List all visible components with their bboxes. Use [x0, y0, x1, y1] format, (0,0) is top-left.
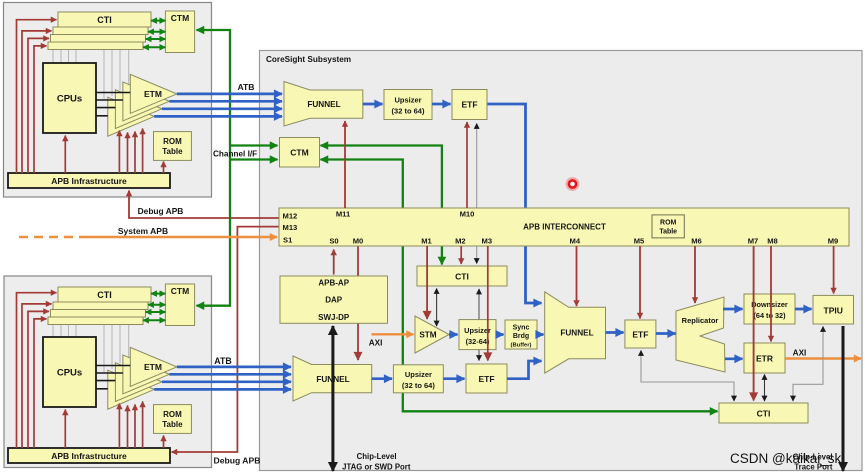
svg-text:Table: Table [659, 228, 677, 235]
wire upsizer to sync bridge (blue) [496, 333, 504, 336]
wire channel branch to subsystem CTM lower (green) [230, 158, 278, 160]
svg-text:(32 to 64): (32 to 64) [392, 107, 425, 116]
wire M5 to mid ETF (red) [639, 246, 641, 319]
svg-text:ETM: ETM [144, 362, 162, 372]
wire M9 to TPIU (red) [833, 246, 835, 294]
svg-text:CPUs: CPUs [57, 368, 82, 379]
wire TPIU to trace CTI link (gray) [793, 327, 823, 402]
svg-text:S0: S0 [329, 237, 338, 246]
DAP debug access port [280, 276, 388, 323]
wires CTI to ETM links (top cluster) [104, 50, 129, 101]
wire blue: top ETF down to main funnel (behind interconnect) [487, 104, 542, 303]
wire sync bridge to main funnel (blue) [537, 333, 544, 336]
wire ETR to trace CTI link (gray) [764, 375, 766, 402]
svg-text:Debug APB: Debug APB [214, 456, 261, 466]
TPIU [813, 295, 854, 324]
CTI (subsystem mid) [417, 266, 507, 286]
wires CPUs to ETM (top cluster) [96, 93, 130, 116]
svg-text:ETM: ETM [144, 89, 162, 99]
STM trace source [415, 316, 449, 353]
svg-text:ETF: ETF [632, 330, 648, 340]
svg-text:FUNNEL: FUNNEL [560, 329, 593, 338]
CoreSight Subsystem container [260, 51, 863, 471]
wire M8 to ETR (red, over downsizer) [770, 246, 772, 342]
svg-text:STM: STM [419, 331, 436, 340]
wire M10 to top ETF (red) [466, 122, 468, 208]
wire bottom funnel to upsizer (blue) [372, 377, 392, 380]
wire APB-AP to S0 (red) [333, 250, 335, 275]
wires CTI to ETM links (bottom cluster) [104, 325, 129, 374]
wires CTI to CPUs links (bottom cluster) [53, 325, 76, 339]
wire gray: mid CTI to bottom ETF link (behind upsizer) [478, 289, 480, 361]
CTM (top cluster) [165, 11, 194, 53]
wires ATB bottom (blue) [154, 367, 291, 390]
svg-text:Sync: Sync [513, 325, 530, 332]
top CPU cluster container [4, 3, 212, 198]
wires APB to ETM (top cluster, red) [119, 129, 142, 174]
wire funnel to upsizer (blue) [363, 103, 383, 106]
svg-text:System APB: System APB [118, 226, 168, 236]
svg-text:CTI: CTI [97, 290, 112, 300]
CTM (bottom cluster) [165, 284, 194, 326]
wire replicator to ETR (blue) [725, 357, 743, 360]
wire mid ETF to trace CTI link (gray) [641, 351, 734, 402]
wires APB to CTI (bottom cluster, red) [17, 293, 57, 448]
wires APB to ETM (bottom cluster, red) [119, 402, 142, 449]
wire APB to ROM Table (top cluster, red) [163, 162, 165, 174]
wire AXI into STM (orange) [372, 333, 414, 335]
svg-text:Upsizer: Upsizer [464, 326, 491, 335]
svg-text:CTM: CTM [290, 148, 308, 158]
svg-text:TPIU: TPIU [824, 306, 843, 316]
wire Debug APB feed (top cluster, red) [129, 191, 279, 219]
svg-text:M8: M8 [767, 237, 778, 246]
svg-text:M9: M9 [828, 237, 839, 246]
svg-text:CPUs: CPUs [57, 94, 82, 105]
ROM Table (top cluster) [154, 132, 192, 161]
svg-text:Table: Table [162, 420, 183, 429]
wire APB to ROM Table (bottom cluster, red) [163, 436, 165, 449]
ETF (top) [452, 90, 487, 120]
wire STM to upsizer (blue) [449, 333, 458, 336]
wire bottom ETF to main funnel (blue) [507, 361, 542, 379]
svg-text:M6: M6 [691, 237, 702, 246]
wire CTM channel trunk (green) [197, 30, 231, 306]
svg-text:M12: M12 [283, 212, 298, 221]
downsizer 64 to 32 [744, 294, 795, 324]
wire M1 to STM (red, over CTI) [426, 246, 428, 319]
svg-text:Replicator: Replicator [682, 316, 719, 325]
wire green: subsystem CTM to mid CTI (behind interconnect) [321, 146, 442, 265]
svg-text:CTM: CTM [171, 13, 189, 23]
ETM trace units (bottom cluster) [108, 347, 177, 409]
wire APB to CPUs (bottom cluster, red) [64, 410, 66, 449]
CTM (subsystem) [280, 138, 320, 168]
wire main funnel to ETF (blue) [606, 331, 624, 334]
svg-text:M0: M0 [353, 237, 364, 246]
svg-text:Channel I/F: Channel I/F [213, 150, 257, 159]
svg-text:Upsizer: Upsizer [405, 370, 432, 379]
upsizer 32-64 [459, 320, 496, 350]
funnel (bottom trace funnel) [293, 356, 372, 401]
wire M4 to main funnel (red) [576, 246, 578, 306]
wire M2 to mid CTI (red) [460, 246, 462, 264]
wire trace port (black) [842, 326, 845, 471]
svg-text:M3: M3 [482, 237, 493, 246]
wire green: subsystem CTM to trace CTI (behind boxes) [321, 160, 718, 412]
svg-text:Downsizer: Downsizer [751, 300, 788, 309]
svg-text:(Buffer): (Buffer) [511, 343, 532, 349]
wire M3 to bottom ETF (red) [487, 246, 489, 361]
CPUs (bottom cluster) [43, 337, 96, 407]
funnel (main trace funnel) [545, 292, 606, 373]
replicator [676, 297, 725, 372]
svg-text:Upsizer: Upsizer [394, 96, 421, 105]
ETM trace units (top cluster) [108, 74, 177, 136]
svg-text:JTAG or SWD Port: JTAG or SWD Port [342, 463, 411, 472]
wire M11 to top funnel (red) [344, 121, 346, 208]
bottom CPU cluster container [4, 276, 212, 468]
CTI (trace) [719, 403, 808, 423]
wire upsizer to ETF (blue) [432, 103, 451, 106]
funnel U-top (trace funnel) [284, 82, 363, 127]
svg-text:M13: M13 [283, 223, 298, 232]
svg-text:FUNNEL: FUNNEL [307, 100, 340, 109]
svg-text:Chip-Level: Chip-Level [357, 452, 397, 461]
svg-text:(32 to 64): (32 to 64) [402, 381, 435, 390]
wires CPUs to ETM (bottom cluster) [96, 366, 130, 389]
wires CTI-CTM channel (top cluster, green) [143, 21, 165, 48]
svg-text:APB Infrastructure: APB Infrastructure [51, 176, 127, 186]
svg-text:M7: M7 [748, 237, 759, 246]
svg-text:CTI: CTI [455, 272, 469, 282]
svg-text:ETR: ETR [756, 354, 773, 364]
svg-text:AXI: AXI [369, 339, 383, 348]
svg-text:M4: M4 [570, 237, 581, 246]
wire Debug APB feed (bottom cluster, red) [172, 227, 280, 452]
wire APB to CPUs (top cluster, red) [64, 136, 66, 174]
wire downsizer to TPIU (blue) [795, 308, 812, 311]
wire upsizer to bottom ETF (blue) [443, 377, 464, 380]
wire channel branch to subsystem CTM upper (green) [230, 144, 278, 146]
ROM Table (interconnect) [652, 215, 684, 238]
svg-text:Table: Table [162, 147, 183, 156]
CTI stack (top cluster) [48, 12, 151, 50]
CTI stack (bottom cluster) [48, 287, 151, 325]
svg-text:CoreSight Subsystem: CoreSight Subsystem [266, 55, 351, 64]
wire M6 to replicator (red) [694, 246, 696, 303]
wire JTAG debug port (black) [331, 326, 334, 471]
APB Infrastructure (top cluster) [8, 173, 170, 188]
sync bridge [505, 320, 537, 349]
svg-text:M10: M10 [460, 210, 475, 219]
wires ATB top (blue) [154, 94, 282, 117]
svg-text:AXI: AXI [793, 349, 807, 358]
ROM Table (bottom cluster) [154, 405, 192, 434]
svg-text:DAP: DAP [325, 296, 343, 305]
wire mid CTI to STM link (black) [436, 289, 438, 327]
ETF (bottom) [466, 364, 507, 393]
svg-text:ETF: ETF [478, 374, 494, 384]
svg-text:CTI: CTI [757, 409, 771, 419]
svg-text:M5: M5 [634, 237, 645, 246]
wires CTI to CPUs links (top cluster) [53, 50, 76, 65]
svg-text:Chip-Level: Chip-Level [793, 453, 833, 462]
wire System APB solid (orange) [88, 236, 277, 238]
svg-text:ETF: ETF [461, 100, 477, 110]
wire ETR AXI out (orange) [785, 357, 861, 359]
wire M0: interconnect to bottom funnel (red, behind DAP) [357, 246, 359, 360]
svg-text:APB Infrastructure: APB Infrastructure [51, 451, 127, 461]
svg-text:S1: S1 [283, 236, 293, 245]
svg-text:Debug APB: Debug APB [138, 206, 184, 216]
wires APB to CTI (top cluster, red) [17, 20, 57, 173]
svg-text:APB INTERCONNECT: APB INTERCONNECT [523, 223, 606, 232]
ETF (mid) [625, 320, 656, 348]
wire mid ETF to replicator (blue) [656, 332, 676, 335]
cursor highlight dot [566, 177, 580, 191]
svg-text:(32-64): (32-64) [466, 337, 490, 346]
svg-text:Brdg: Brdg [513, 333, 529, 340]
svg-text:(64 to 32): (64 to 32) [753, 311, 786, 320]
svg-text:M2: M2 [455, 237, 466, 246]
svg-text:SWJ-DP: SWJ-DP [318, 313, 350, 322]
APB Infrastructure (bottom cluster) [8, 448, 170, 463]
APB interconnect bar [279, 208, 849, 246]
wire gray: top ETF to mid CTI link (behind interconnect) [476, 124, 478, 264]
svg-text:M1: M1 [421, 237, 432, 246]
svg-text:ROM: ROM [660, 219, 677, 226]
svg-text:CTI: CTI [97, 15, 112, 25]
svg-text:ROM: ROM [163, 410, 182, 419]
svg-text:ATB: ATB [237, 82, 254, 92]
wire M7 to trace CTI (red, over boxes) [753, 246, 755, 401]
ETR [744, 343, 785, 373]
wire replicator to downsizer (blue) [723, 308, 743, 311]
upsizer 32 to 64 (top) [384, 90, 432, 120]
svg-text:ATB: ATB [214, 356, 231, 366]
CPUs (top cluster) [43, 63, 96, 133]
svg-text:APB-AP: APB-AP [318, 279, 349, 288]
svg-text:M11: M11 [336, 210, 351, 219]
upsizer 32 to 64 (bottom) [393, 365, 443, 393]
wire System APB dashed (orange) [19, 236, 90, 238]
wires CTI-CTM channel (bottom cluster, green) [143, 294, 165, 321]
svg-text:CTM: CTM [171, 286, 189, 296]
svg-text:ROM: ROM [163, 137, 182, 146]
svg-text:Trace Port: Trace Port [794, 463, 833, 472]
